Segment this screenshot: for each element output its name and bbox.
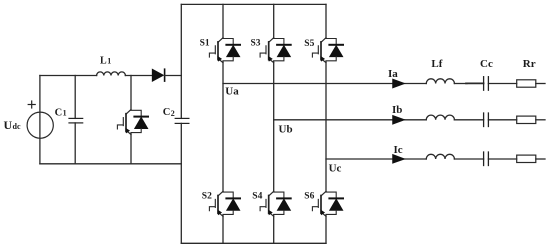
wire: DC-link left edge upper xyxy=(180,4,182,118)
capacitor Cc phase A xyxy=(484,77,489,91)
node A output wire xyxy=(223,82,545,84)
svg-text:1: 1 xyxy=(63,109,67,118)
svg-text:Ic: Ic xyxy=(394,144,403,156)
svg-text:2: 2 xyxy=(171,109,175,118)
voltage source U_dc circle xyxy=(27,112,53,138)
svg-text:Ia: Ia xyxy=(388,68,398,80)
wire: Q emitter to bottom rail xyxy=(130,133,132,164)
wire: leg2 middle xyxy=(273,61,275,191)
svg-text:S5: S5 xyxy=(304,39,314,49)
wire: leg3 middle xyxy=(325,61,327,191)
node C output wire xyxy=(326,158,545,160)
current arrow phase C xyxy=(393,155,405,164)
inductor Lf phase A xyxy=(426,79,454,84)
svg-text:1: 1 xyxy=(107,57,111,66)
diode (S1 antiparallel) xyxy=(223,39,240,61)
wire: bottom rail of input stage xyxy=(40,163,181,165)
transistor S1 xyxy=(209,38,223,63)
wire: top rail from source to L1 xyxy=(40,75,97,77)
transistor S2 xyxy=(209,191,223,216)
wire: top DC bus xyxy=(181,3,326,5)
plus sign of source xyxy=(28,101,35,108)
diode (S2 antiparallel) xyxy=(223,192,240,214)
diode (S6 antiparallel) xyxy=(326,192,343,214)
svg-text:Ub: Ub xyxy=(279,123,293,135)
wire: chopper transistor collector branch xyxy=(130,76,132,110)
wire: leg2 top xyxy=(273,4,275,37)
wire: leg1 bottom xyxy=(222,215,224,243)
transistor S3 xyxy=(260,38,274,63)
svg-text:dc: dc xyxy=(13,122,21,131)
label L1 xyxy=(100,55,111,66)
wire: DC-link left edge lower xyxy=(180,123,182,243)
current arrow phase B xyxy=(393,116,405,125)
transistor S4 xyxy=(260,191,274,216)
svg-text:L: L xyxy=(100,55,107,66)
wire: leg1 top xyxy=(222,4,224,37)
inductor Lf phase C xyxy=(426,154,454,159)
svg-text:S3: S3 xyxy=(251,39,261,49)
inductor Lf phase B xyxy=(426,115,454,120)
label C1 xyxy=(55,107,67,118)
label C2 xyxy=(163,107,175,118)
wire: leg3 bottom xyxy=(325,215,327,243)
current arrow phase A xyxy=(393,79,405,88)
svg-text:Uc: Uc xyxy=(329,163,342,175)
diode (S5 antiparallel) xyxy=(326,39,343,61)
svg-text:S1: S1 xyxy=(200,38,210,48)
capacitor Cc phase C xyxy=(484,152,489,166)
label Udc xyxy=(4,118,21,132)
resistor Rr phase A xyxy=(517,80,536,87)
capacitor C1 xyxy=(69,118,83,123)
resistor Rr phase C xyxy=(517,155,536,162)
wire: C1 top branch xyxy=(74,76,76,119)
capacitor C2 xyxy=(175,118,189,123)
svg-text:S2: S2 xyxy=(202,191,212,201)
svg-text:S4: S4 xyxy=(252,191,262,201)
inductor L1 xyxy=(97,72,126,76)
wire: leg2 bottom xyxy=(273,215,275,243)
capacitor Cc phase B xyxy=(484,113,489,127)
wire: L1 to diode anode xyxy=(125,75,152,77)
diode (S3 antiparallel) xyxy=(274,39,291,61)
wire: source positive branch vertical xyxy=(39,76,41,164)
wire: leg1 middle xyxy=(222,61,224,191)
transistor S6 xyxy=(312,191,326,216)
svg-text:U: U xyxy=(4,118,13,132)
svg-text:Lf: Lf xyxy=(431,58,442,70)
diode (Q antiparallel) xyxy=(131,110,148,132)
node B output wire xyxy=(274,119,545,121)
svg-text:Ua: Ua xyxy=(225,86,239,98)
wire: C1 bottom branch xyxy=(74,123,76,164)
wire: leg3 top xyxy=(325,4,327,37)
diode (S4 antiparallel) xyxy=(274,192,291,214)
svg-text:S6: S6 xyxy=(304,191,314,201)
transistor Q (chopper IGBT) xyxy=(117,110,131,135)
svg-text:Cc: Cc xyxy=(480,58,493,70)
transistor S5 xyxy=(312,38,326,63)
diode D (series boost diode) xyxy=(152,69,164,81)
svg-text:C: C xyxy=(163,107,171,118)
svg-text:Rr: Rr xyxy=(523,58,536,70)
svg-text:Ib: Ib xyxy=(392,104,402,116)
wire: bottom DC bus xyxy=(181,242,326,244)
resistor Rr phase B xyxy=(517,116,536,123)
svg-text:C: C xyxy=(55,107,63,118)
wire: diode cathode to DC-link xyxy=(165,75,182,77)
